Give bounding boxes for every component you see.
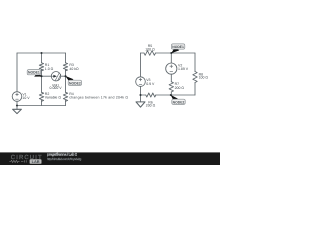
resistor R3: [63, 63, 67, 71]
svg-text:1.0 Ω: 1.0 Ω: [45, 67, 54, 71]
svg-text:100 Ω: 100 Ω: [199, 76, 209, 80]
resistor R1: [39, 63, 43, 71]
voltage source V2: [166, 63, 177, 74]
resistor R7: [169, 82, 173, 92]
junction right circuit bottom (NODE2): [170, 94, 172, 96]
svg-text:200 Ω: 200 Ω: [146, 103, 156, 107]
node label NODE1 (left circuit): [27, 70, 42, 77]
wire right circuit right side top: [194, 53, 196, 72]
svg-text:NODE2: NODE2: [173, 100, 185, 104]
wire V1 bottom lead: [16, 101, 18, 105]
wire R1 bottom lead to node: [41, 70, 43, 76]
wire left circuit bottom: [17, 105, 66, 107]
voltage source V3: [136, 77, 146, 87]
wire bottom left segment to R6: [141, 94, 146, 96]
ground (left circuit): [16, 106, 18, 110]
resistor R2: [39, 92, 43, 101]
wire bottom right segment: [171, 94, 195, 96]
svg-text:Variable Ω: Variable Ω: [45, 96, 62, 100]
wire V2 to R7: [170, 74, 172, 82]
node label NODE2 (left circuit): [65, 76, 81, 85]
wire V3 bottom lead: [140, 86, 142, 95]
junction right circuit top (NODE1): [170, 52, 172, 54]
svg-text:100 Ω: 100 Ω: [145, 48, 155, 52]
svg-text:NODE1: NODE1: [172, 45, 184, 49]
wire R2 top lead: [41, 76, 43, 92]
wire node A to voltmeter: [42, 75, 52, 77]
resistor R8: [193, 72, 197, 83]
node label NODE2 (right circuit): [171, 95, 186, 105]
wire left circuit left side (V1 top lead): [16, 53, 18, 92]
CircuitLab logo: [9, 154, 42, 164]
svg-text:http://circuitlab.com/c/8cysdv: http://circuitlab.com/c/8cysdv2g: [47, 157, 82, 161]
svg-text:40 kΩ: 40 kΩ: [69, 67, 79, 71]
voltmeter VM1: [51, 72, 60, 81]
junction node A (R1/R2/VM1): [40, 75, 42, 77]
junction right circuit ground: [139, 94, 141, 96]
resistor R6: [146, 93, 156, 97]
svg-text:NODE1: NODE1: [28, 71, 40, 75]
wire R5 to right corner: [156, 52, 195, 54]
svg-text:NODE2: NODE2: [69, 81, 81, 85]
ground (right circuit): [140, 95, 142, 102]
resistor R5: [144, 51, 156, 56]
svg-text:LAB: LAB: [32, 159, 40, 164]
svg-text:changes between 17k and 204k Ω: changes between 17k and 204k Ω: [69, 96, 128, 100]
junction V1 ground: [16, 104, 18, 106]
wire voltmeter to node B: [61, 75, 66, 77]
svg-text:0.9 V: 0.9 V: [146, 82, 155, 86]
wire R7 bottom lead: [170, 92, 172, 95]
wire R3 bottom lead to node: [65, 70, 67, 76]
wire right circuit top-left corner to R5: [141, 52, 144, 54]
watermark bar: [0, 152, 220, 165]
wire R1 top lead: [41, 53, 43, 63]
wire R3 top lead: [65, 53, 67, 63]
wire R4 bottom lead: [65, 100, 67, 105]
wire right circuit left side (V3 top lead): [140, 53, 142, 77]
wire middle branch top lead: [170, 53, 172, 63]
wire R4 top lead: [65, 76, 67, 92]
junction top of R1: [40, 52, 42, 54]
voltage source V1: [12, 92, 22, 102]
voltmeter VM1 arrowhead: [53, 75, 56, 78]
wire R6 to node D: [156, 94, 171, 96]
wire right circuit right side bottom: [194, 83, 196, 96]
resistor R4: [63, 92, 67, 101]
svg-text:1.89 V: 1.89 V: [178, 67, 189, 71]
svg-text:10 V: 10 V: [22, 96, 30, 100]
junction node B (R3/R4/VM1): [64, 75, 66, 77]
node label NODE1 (right circuit): [171, 44, 185, 53]
svg-text:0.000 V: 0.000 V: [50, 86, 63, 90]
wire left circuit top: [17, 52, 66, 54]
svg-text:200 Ω: 200 Ω: [175, 86, 185, 90]
wire R2 bottom lead: [41, 100, 43, 105]
